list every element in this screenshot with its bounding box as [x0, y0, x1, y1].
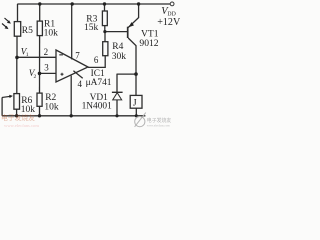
svg-text:3: 3 — [44, 63, 49, 73]
svg-text:R5: R5 — [22, 26, 33, 36]
svg-text:J: J — [133, 98, 137, 109]
junction dot node R3 R4 base — [103, 30, 106, 33]
wire op-amp output pin 6 to R4 bottom — [88, 56, 105, 68]
wire pin 7 from rail to op-amp top — [71, 4, 73, 59]
wire top +12V rail — [17, 3, 170, 5]
wire collector node to diode VD1 — [117, 73, 137, 75]
resistor R3 body — [102, 11, 107, 26]
op-amp plus sign — [61, 73, 64, 76]
potentiometer R6 wiper arrow — [2, 96, 10, 97]
resistor R4 body — [103, 42, 108, 56]
junction dot rail R1 — [38, 2, 41, 5]
svg-text:www.elecfans.com: www.elecfans.com — [4, 123, 39, 128]
wire R1 bottom down through V2 node — [39, 36, 41, 94]
wire node V1 to op-amp pin 2 — [17, 56, 56, 58]
wire J bottom to ground rail — [135, 108, 137, 116]
transistor VT1 emitter arrow (PNP) — [129, 22, 134, 27]
svg-text:+12V: +12V — [157, 17, 180, 28]
junction dot rail R3 — [103, 2, 106, 5]
wire R3 bottom to node — [104, 26, 106, 32]
slash mark through op-amp lower edge — [73, 71, 82, 79]
wire R2 bottom to ground rail — [39, 106, 41, 116]
junction dot rail VT1 emitter — [137, 2, 140, 5]
wire base of VT1 — [105, 31, 128, 33]
wire R5 bottom to node V1 — [16, 36, 18, 57]
svg-text:15k: 15k — [84, 23, 99, 33]
node V2 dot — [38, 72, 42, 76]
resistor R1 body — [37, 21, 42, 35]
transistor Q1 VT1 base bar — [127, 27, 129, 38]
resistor R5 body — [14, 22, 20, 37]
relay J coil box — [130, 95, 142, 108]
wire R1 column upper — [39, 4, 41, 21]
diode VD1 cathode bar — [112, 91, 123, 93]
svg-text:2: 2 — [34, 74, 37, 80]
transistor VT1 collector lead — [128, 38, 136, 74]
wire left column R5 upper — [17, 4, 19, 22]
svg-text:30k: 30k — [112, 52, 127, 62]
junction dot ground J — [135, 114, 138, 117]
svg-text:7: 7 — [75, 51, 80, 61]
junction dot ground VD1 — [115, 114, 118, 117]
wire node V2 to op-amp pin 3 — [40, 72, 57, 74]
svg-text:10k: 10k — [44, 103, 59, 113]
diode VD1 triangle — [113, 93, 122, 100]
transistor VT1 emitter lead — [128, 4, 138, 28]
svg-text:6: 6 — [94, 55, 99, 65]
light arrow 2 on photoresistor R5 — [2, 24, 7, 28]
op-amp minus sign — [59, 54, 63, 55]
resistor R2 body — [37, 93, 42, 106]
junction dot ground pin4 — [70, 114, 73, 117]
svg-text:www.elecfans.com: www.elecfans.com — [147, 123, 170, 127]
svg-text:2: 2 — [44, 47, 49, 57]
wire V1 node down to R6 — [16, 57, 18, 93]
svg-text:R4: R4 — [112, 42, 123, 52]
light arrow 1 on photoresistor R5 — [2, 18, 134, 98]
wire VD1 top lead — [116, 74, 118, 92]
svg-text:μA741: μA741 — [86, 78, 112, 88]
wire bottom ground rail — [2, 115, 145, 117]
wire pin 4 from op-amp bottom to ground rail — [70, 76, 72, 116]
svg-text:1: 1 — [26, 52, 29, 58]
svg-text:9012: 9012 — [139, 38, 158, 49]
svg-text:10k: 10k — [44, 29, 59, 39]
wire collector node to J coil — [135, 74, 137, 95]
wire node down to R4 top — [104, 32, 106, 42]
op-amp U1 triangle — [56, 50, 88, 82]
junction dot collector VD1 J — [134, 72, 138, 76]
svg-text:电子发烧友: 电子发烧友 — [1, 113, 35, 122]
wire R6 bottom to ground rail — [16, 109, 18, 116]
node V1 dot — [15, 56, 19, 60]
potentiometer R6 wiper tail wire — [1, 97, 3, 115]
junction dot rail pin7 — [71, 2, 74, 5]
svg-text:10k: 10k — [21, 105, 36, 115]
svg-text:4: 4 — [78, 79, 83, 89]
svg-text:1N4001: 1N4001 — [82, 102, 113, 112]
junction dot ground R6 — [15, 114, 18, 117]
resistor R6 body — [14, 94, 20, 110]
terminal VDD circle — [170, 2, 174, 6]
junction dot ground R2 — [38, 114, 41, 117]
wire VD1 bottom lead to ground rail — [116, 100, 118, 116]
watermark logo circle right — [135, 113, 146, 127]
wire R3 column from rail — [104, 4, 106, 11]
